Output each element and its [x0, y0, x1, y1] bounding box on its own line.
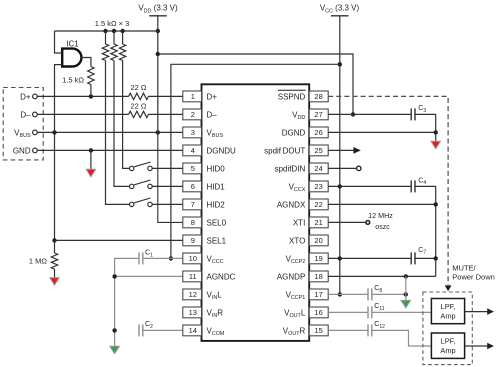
connector terminal D-	[33, 112, 38, 117]
output arrow R	[465, 345, 488, 347]
wire pin 17 to C8	[328, 293, 368, 295]
SSPND overline	[278, 89, 306, 91]
svg-text:AGNDP: AGNDP	[277, 272, 305, 281]
pin 23 box	[309, 181, 328, 192]
wire AGNDX (pin 22)	[328, 203, 436, 205]
node DGND	[434, 130, 438, 134]
svg-text:SEL1: SEL1	[207, 236, 227, 245]
svg-text:IC1: IC1	[66, 40, 79, 49]
svg-text:GND: GND	[13, 146, 31, 155]
svg-text:19: 19	[314, 254, 322, 263]
ground (green) analog	[114, 345, 116, 347]
wire C7 to AGND net	[415, 257, 436, 259]
svg-text:2: 2	[191, 110, 195, 119]
svg-text:11: 11	[189, 272, 197, 281]
wire AGNDP (pin 18)	[328, 275, 436, 277]
svg-text:spdif DOUT: spdif DOUT	[264, 146, 305, 155]
svg-text:D–: D–	[20, 110, 31, 119]
node VCC branch to VCCC	[338, 62, 342, 66]
resistor 1.5k #3 (to HID0)	[122, 31, 124, 44]
wire C8 to analog gnd	[372, 293, 406, 295]
svg-text:1.5 kΩ: 1.5 kΩ	[62, 76, 84, 85]
pin 20 box	[309, 235, 328, 246]
capacitor C4	[410, 180, 412, 192]
pin 6 box	[183, 181, 202, 192]
svg-text:7: 7	[191, 200, 195, 209]
capacitor C7	[410, 252, 412, 264]
wire C11 to LPF1	[372, 311, 432, 313]
svg-text:1.5 kΩ × 3: 1.5 kΩ × 3	[95, 19, 130, 28]
IC U1 PCM2702 body	[202, 84, 310, 341]
capacitor C8	[367, 288, 369, 300]
pin 22 box	[309, 199, 328, 210]
svg-text:21: 21	[314, 218, 322, 227]
wire AGNDP to C8 node	[405, 276, 407, 294]
wire SSPND dashed to MUTE	[328, 96, 448, 285]
junction GND	[89, 148, 93, 152]
pin 14 box	[183, 325, 202, 336]
node VCC/VCCX	[338, 184, 342, 188]
svg-text:spdifDIN: spdifDIN	[275, 164, 306, 173]
wire SEL0 (VBUS to pin 8)	[158, 132, 183, 222]
svg-text:D+: D+	[20, 92, 31, 101]
svg-text:4: 4	[191, 146, 195, 155]
VDD rail bar	[149, 15, 167, 17]
wire GND to pin 4 (DGNDU)	[38, 149, 183, 151]
svg-text:DGND: DGND	[282, 128, 306, 137]
ground (green) at C8	[405, 294, 407, 300]
svg-text:LPF,: LPF,	[441, 337, 456, 346]
svg-text:XTO: XTO	[289, 236, 305, 245]
svg-text:25: 25	[314, 146, 322, 155]
svg-text:17: 17	[314, 290, 322, 299]
svg-text:14: 14	[189, 326, 197, 335]
wire VDD to pin 27	[158, 54, 353, 114]
pin 13 box	[183, 307, 202, 318]
svg-text:20: 20	[314, 236, 322, 245]
switch S1 (HID0)	[130, 166, 134, 170]
node AGNDC	[112, 274, 116, 278]
svg-text:23: 23	[314, 182, 322, 191]
pin 15 box	[309, 325, 328, 336]
junction VBUS/gate input	[52, 130, 56, 134]
pin 9 box	[183, 235, 202, 246]
capacitor C1	[138, 252, 140, 264]
pin 26 box	[309, 127, 328, 138]
wire IC1 input 1 (from VDD rail)	[55, 31, 63, 53]
svg-text:27: 27	[314, 110, 322, 119]
wire D- to pin 2	[148, 113, 182, 115]
wire C4 to AGNDX net	[415, 186, 436, 276]
pin 4 box	[183, 145, 202, 156]
LPF/Amp dashed enclosure	[423, 292, 472, 365]
capacitor C12	[367, 324, 369, 336]
wire HID0 to pin 5	[152, 167, 182, 169]
svg-text:9: 9	[191, 236, 195, 245]
connector terminal D+	[33, 94, 38, 99]
wire D- (connector to R 22ohm)	[38, 113, 129, 115]
node VDD/resistor rail	[156, 29, 160, 33]
wire C1 to pin 10	[143, 257, 183, 259]
resistor R 22 ohm (D-)	[129, 111, 149, 117]
wire pin 27 to C3	[328, 113, 411, 115]
wire pin 19 to C7	[328, 257, 411, 259]
wire pin 15 to C12	[328, 329, 368, 331]
svg-text:1 MΩ: 1 MΩ	[29, 256, 48, 265]
capacitor C11	[367, 306, 369, 318]
resistor R 22 ohm (D+)	[129, 93, 149, 99]
wire VBUS to pin 3	[38, 131, 183, 133]
node AGNDP branch	[404, 274, 408, 278]
svg-text:Amp: Amp	[440, 346, 455, 355]
pin 7 box	[183, 199, 202, 210]
node SEL1	[52, 238, 56, 242]
output arrow L	[465, 311, 488, 313]
svg-text:18: 18	[314, 272, 322, 281]
svg-text:1: 1	[191, 92, 195, 101]
pin 24 box	[309, 163, 328, 174]
pin 10 box	[183, 253, 202, 264]
node VCC/VCCP2	[338, 256, 342, 260]
capacitor C3	[410, 108, 412, 120]
svg-text:16: 16	[314, 308, 322, 317]
node rail/R1	[103, 29, 107, 33]
svg-text:3: 3	[191, 128, 195, 137]
svg-text:Power Down: Power Down	[452, 273, 495, 282]
svg-text:13: 13	[189, 308, 197, 317]
junction VBUS/VDD rail	[156, 130, 160, 134]
svg-text:AGNDX: AGNDX	[277, 200, 306, 209]
svg-text:HID1: HID1	[207, 182, 226, 191]
switch S3 (HID2)	[130, 202, 134, 206]
pin 25 box	[309, 145, 328, 156]
svg-text:D+: D+	[207, 92, 218, 101]
node VCC/VCCP1	[338, 292, 342, 296]
resistor 1.5 kohm (pullup to D+)	[88, 67, 94, 85]
pin 28 box	[309, 91, 328, 102]
pin 1 box	[183, 91, 202, 102]
LPF Amp block 2	[431, 333, 464, 358]
svg-text:12 MHz: 12 MHz	[368, 211, 393, 220]
node C8/gnd	[404, 292, 408, 296]
capacitor C2	[138, 324, 140, 336]
resistor 1.5k #1 (to HID2)	[105, 31, 107, 44]
svg-text:XTI: XTI	[293, 218, 305, 227]
ground (red) below 1 Mohm	[54, 269, 56, 278]
wire C1 left branch	[115, 258, 139, 346]
wire XTI with terminal	[328, 221, 365, 223]
pin 27 box	[309, 109, 328, 120]
pin 11 box	[183, 271, 202, 282]
wire C2 to pin 14	[143, 329, 183, 331]
pin 17 box	[309, 289, 328, 300]
svg-text:5: 5	[191, 164, 195, 173]
node VDD at pin 27	[351, 112, 355, 116]
wire HID1 to pin 6	[152, 185, 182, 187]
svg-text:DGNDU: DGNDU	[207, 146, 237, 155]
pin 3 box	[183, 127, 202, 138]
wire spdifDIN with terminal	[328, 167, 356, 169]
svg-text:HID2: HID2	[207, 200, 226, 209]
node C2	[112, 328, 116, 332]
ground (red) at GND line	[90, 150, 92, 169]
svg-text:22: 22	[314, 200, 322, 209]
wire C3 to DGND	[415, 114, 436, 132]
USB connector J1 (dashed box)	[3, 88, 43, 160]
svg-text:LPF,: LPF,	[441, 302, 456, 311]
wire pin 23 to C4	[328, 185, 411, 187]
svg-text:26: 26	[314, 128, 322, 137]
pin 12 box	[183, 289, 202, 300]
svg-text:12: 12	[189, 290, 197, 299]
wire VDD vertical	[157, 16, 159, 133]
pin 5 box	[183, 163, 202, 174]
wire VCC to VCCC (pin 10)	[171, 64, 340, 258]
node VCCC	[169, 256, 173, 260]
wire C12 to LPF2	[372, 330, 432, 346]
wire DGND (pin 26)	[328, 131, 436, 133]
svg-text:HID0: HID0	[207, 164, 226, 173]
pin 16 box	[309, 307, 328, 318]
resistor 1 Mohm	[54, 240, 56, 253]
wire spdif DOUT with arrow	[328, 149, 353, 151]
wire resistor rail (y=31)	[55, 30, 158, 32]
svg-text:8: 8	[191, 218, 195, 227]
arrowhead MUTE (down)	[445, 285, 452, 291]
wire SEL1 to pin 9	[55, 239, 183, 241]
svg-text:24: 24	[314, 164, 322, 173]
junction D+/1.5k pullup	[89, 94, 93, 98]
svg-text:15: 15	[314, 326, 322, 335]
svg-text:28: 28	[314, 92, 322, 101]
svg-text:SEL0: SEL0	[207, 218, 227, 227]
svg-text:6: 6	[191, 182, 195, 191]
svg-text:MUTE/: MUTE/	[452, 263, 476, 272]
svg-text:10: 10	[189, 254, 197, 263]
op-amp/AND gate IC1	[62, 49, 81, 67]
node rail/R2	[112, 29, 116, 33]
LPF Amp block 1	[431, 299, 464, 324]
wire D+ (connector to R 22ohm)	[38, 95, 129, 97]
pin 19 box	[309, 253, 328, 264]
node rail/R3	[120, 29, 124, 33]
wire VCC vertical	[339, 16, 341, 295]
wire pin 16 to C11	[328, 311, 368, 313]
wire HID2 to pin 7	[152, 203, 182, 205]
VCC rail bar	[331, 15, 349, 17]
svg-text:D–: D–	[207, 110, 218, 119]
svg-text:22 Ω: 22 Ω	[130, 101, 146, 110]
resistor 1.5k #2 (to HID1)	[113, 31, 115, 44]
wire D+ to pin 1	[148, 95, 182, 97]
ground (red) digital	[435, 132, 437, 141]
pin 21 box	[309, 217, 328, 228]
svg-text:SSPND: SSPND	[278, 92, 306, 101]
svg-text:AGNDC: AGNDC	[207, 272, 236, 281]
connector terminal VBUS	[33, 130, 38, 135]
wire AGNDC (pin 11)	[115, 275, 183, 277]
connector terminal GND	[33, 148, 38, 153]
pin 18 box	[309, 271, 328, 282]
svg-text:oszc: oszc	[375, 224, 390, 231]
wire IC1 input 2 (to VBUS)	[55, 65, 63, 133]
svg-text:22 Ω: 22 Ω	[130, 83, 146, 92]
node C7/AGNDX vertical	[434, 256, 438, 260]
switch S2 (HID1)	[130, 184, 134, 188]
node VDD/branch	[156, 52, 160, 56]
pin 2 box	[183, 109, 202, 120]
wire IC1 output	[82, 58, 91, 67]
wire VBUS down to SEL1	[54, 132, 56, 240]
node AGNDX	[434, 202, 438, 206]
pin 8 box	[183, 217, 202, 228]
svg-text:Amp: Amp	[440, 311, 455, 320]
